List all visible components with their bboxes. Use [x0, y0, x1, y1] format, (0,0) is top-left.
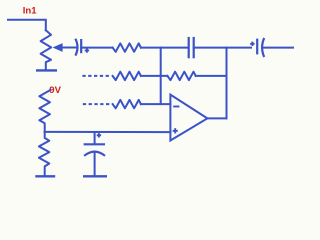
wire R1 to summing node and C3: [141, 47, 189, 49]
resistor R2: [113, 72, 141, 80]
capacitor C1 polarity +: [85, 48, 89, 52]
op-amp U1 triangle: [170, 95, 207, 141]
ground under potentiometer: [36, 69, 57, 71]
wire C3 to output node: [194, 47, 251, 49]
capacitor C1 straight plate: [80, 39, 82, 53]
wire divider node down to C2: [94, 132, 96, 144]
capacitor C2 straight plate: [84, 143, 105, 145]
potentiometer P1 body: [41, 30, 52, 69]
dashed input wire row 3: [83, 103, 111, 105]
wire wiper to C1: [62, 47, 76, 49]
svg-text:In1: In1: [23, 6, 37, 17]
output node vertical wire: [226, 48, 228, 119]
resistor R1: [113, 43, 141, 51]
resistor R5 from 9V: [39, 90, 50, 132]
wire In1 to potentiometer top: [8, 20, 46, 30]
capacitor C1 curved plate: [75, 39, 77, 56]
wire C1 to R1: [81, 47, 112, 49]
capacitor C4 straight plate: [256, 39, 258, 55]
resistor R3: [113, 100, 141, 108]
op-amp non-inverting input symbol +: [173, 128, 178, 133]
ground under R6: [35, 175, 55, 177]
capacitor C4 curved plate: [262, 38, 264, 57]
capacitor C4 polarity +: [250, 42, 254, 46]
wire R4 to output node: [196, 75, 227, 77]
potentiometer wiper arrow: [53, 43, 63, 52]
resistor R6 lower divider: [39, 132, 49, 176]
svg-text:9V: 9V: [49, 85, 61, 96]
summing node vertical wire: [160, 48, 162, 105]
wire op-amp output: [207, 117, 226, 119]
op-amp inverting input symbol -: [173, 106, 179, 108]
ground under C2: [83, 175, 107, 177]
wire output to edge: [262, 47, 293, 49]
feedback resistor R4: [167, 72, 195, 80]
feedback capacitor C3 right plate: [193, 37, 195, 58]
feedback capacitor C3 left plate: [188, 37, 190, 58]
dashed input wire row 2: [82, 75, 111, 77]
wire C2 to ground: [94, 152, 96, 176]
capacitor C2 curved plate: [84, 152, 105, 156]
wire divider node to op-amp non-inverting input: [45, 131, 171, 133]
wire R3 to op-amp inverting input: [141, 103, 171, 105]
capacitor C2 polarity +: [97, 133, 101, 137]
wire R2 to summing node and R4: [141, 75, 168, 77]
